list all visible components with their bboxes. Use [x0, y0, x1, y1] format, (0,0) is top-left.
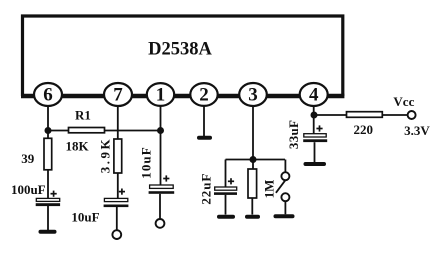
- svg-text:R1: R1: [75, 108, 91, 123]
- svg-text:10uF: 10uF: [139, 146, 154, 179]
- svg-text:1: 1: [156, 85, 166, 106]
- svg-text:4: 4: [309, 85, 319, 106]
- svg-text:D2538A: D2538A: [148, 39, 212, 59]
- svg-text:3.3V: 3.3V: [404, 123, 430, 138]
- svg-text:6: 6: [43, 85, 53, 106]
- svg-text:3.9K: 3.9K: [97, 137, 112, 173]
- svg-text:33uF: 33uF: [286, 120, 301, 149]
- svg-text:220: 220: [353, 122, 373, 137]
- svg-text:100uF: 100uF: [11, 182, 46, 197]
- svg-text:22uF: 22uF: [198, 173, 213, 205]
- svg-text:Vcc: Vcc: [393, 94, 414, 109]
- svg-text:7: 7: [113, 85, 123, 106]
- svg-text:2: 2: [199, 85, 209, 106]
- svg-text:18K: 18K: [65, 139, 89, 154]
- svg-text:10uF: 10uF: [71, 210, 99, 225]
- svg-text:1M: 1M: [261, 180, 276, 199]
- svg-text:3: 3: [248, 85, 258, 106]
- svg-text:39: 39: [21, 151, 35, 166]
